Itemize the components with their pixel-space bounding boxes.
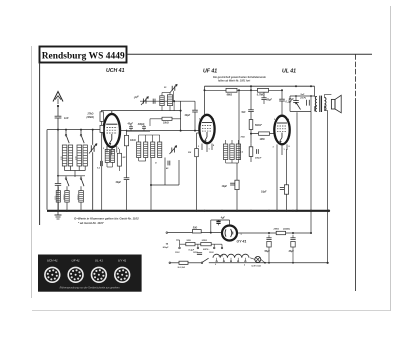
- svg-text:UY 41: UY 41: [237, 239, 247, 243]
- svg-text:(134Ω): (134Ω): [283, 228, 290, 231]
- svg-text:220V~: 220V~: [202, 249, 210, 251]
- svg-text:Si 0,3A: Si 0,3A: [178, 267, 186, 269]
- svg-text:50µF: 50µF: [265, 251, 271, 253]
- svg-text:Die gestrichelt gezeichneten S: Die gestrichelt gezeichneten Schalteleme…: [213, 76, 266, 79]
- svg-text:UCH 41: UCH 41: [106, 68, 125, 74]
- svg-text:(40kΩ): (40kΩ): [86, 116, 94, 119]
- svg-text:20000: 20000: [64, 195, 66, 200]
- svg-text:10kµF: 10kµF: [163, 247, 170, 249]
- svg-text:0,7MΩ: 0,7MΩ: [257, 93, 265, 96]
- svg-text:110V: 110V: [175, 252, 180, 254]
- svg-text:50pF: 50pF: [267, 99, 273, 101]
- svg-text:fallen ab Werk-Nr. 1051 fort: fallen ab Werk-Nr. 1051 fort: [218, 79, 250, 82]
- svg-text:* ab Gerät-Nr. 1107: * ab Gerät-Nr. 1107: [78, 221, 104, 225]
- svg-text:50kΩ*: 50kΩ*: [255, 124, 263, 127]
- svg-text:10µF: 10µF: [222, 185, 228, 188]
- svg-text:1nF: 1nF: [64, 116, 69, 120]
- svg-text:2: 2: [244, 264, 245, 266]
- svg-text:(3nF): (3nF): [301, 97, 307, 99]
- svg-text:40µF: 40µF: [115, 181, 122, 184]
- svg-text:10kΩ: 10kΩ: [163, 123, 169, 125]
- svg-text:150V: 150V: [209, 252, 214, 254]
- svg-text:50Ω: 50Ω: [187, 240, 191, 242]
- svg-text:UF 41: UF 41: [203, 69, 217, 75]
- svg-text:50Ω: 50Ω: [193, 227, 198, 229]
- svg-text:Rendsburg WS 4449: Rendsburg WS 4449: [42, 51, 125, 61]
- svg-text:300pF: 300pF: [255, 157, 262, 159]
- svg-text:1M: 1M: [188, 152, 191, 154]
- svg-text:47µF: 47µF: [288, 98, 295, 101]
- svg-text:4µF: 4µF: [220, 217, 226, 220]
- svg-text:8: 8: [236, 230, 237, 232]
- svg-text:0,1µF: 0,1µF: [189, 250, 195, 252]
- svg-text:30µF: 30µF: [289, 251, 295, 253]
- svg-text:UCH 41: UCH 41: [47, 259, 58, 263]
- svg-text:220V: 220V: [219, 256, 224, 258]
- svg-text:10kΩ: 10kΩ: [130, 140, 136, 142]
- svg-text:TA: TA: [166, 243, 169, 245]
- svg-text:27kΩ: 27kΩ: [87, 113, 94, 116]
- svg-text:250Ω: 250Ω: [273, 229, 280, 231]
- svg-text:5nF: 5nF: [242, 112, 247, 114]
- svg-text:40pF: 40pF: [127, 123, 134, 126]
- svg-text:UL 41: UL 41: [95, 259, 103, 263]
- svg-text:UL 41: UL 41: [282, 69, 296, 75]
- svg-text:UF 41: UF 41: [72, 259, 80, 263]
- svg-text:2: 2: [223, 227, 224, 229]
- svg-text:10µF: 10µF: [261, 190, 267, 193]
- svg-text:UY 41: UY 41: [118, 259, 127, 263]
- svg-text:5000: 5000: [55, 196, 57, 200]
- svg-text:3: 3: [241, 234, 242, 236]
- svg-text:G=Werte in Klammern gelten bis: G=Werte in Klammern gelten bis Gerät-Nr.…: [74, 216, 139, 220]
- svg-text:40pF: 40pF: [184, 114, 191, 117]
- svg-text:0: 0: [215, 264, 216, 266]
- svg-text:6MΩ: 6MΩ: [227, 93, 232, 96]
- svg-text:7kΩ: 7kΩ: [241, 137, 245, 139]
- svg-text:100Ω: 100Ω: [202, 240, 208, 242]
- svg-text:1MΩ: 1MΩ: [260, 139, 265, 141]
- svg-text:5nF: 5nF: [301, 94, 306, 96]
- svg-text:2M: 2M: [122, 157, 126, 159]
- svg-text:6,3V 0,3A: 6,3V 0,3A: [252, 266, 262, 268]
- svg-text:Röhrenanordnung von der Geräte: Röhrenanordnung von der Geräterückseite …: [60, 287, 120, 290]
- svg-text:30000: 30000: [78, 195, 80, 200]
